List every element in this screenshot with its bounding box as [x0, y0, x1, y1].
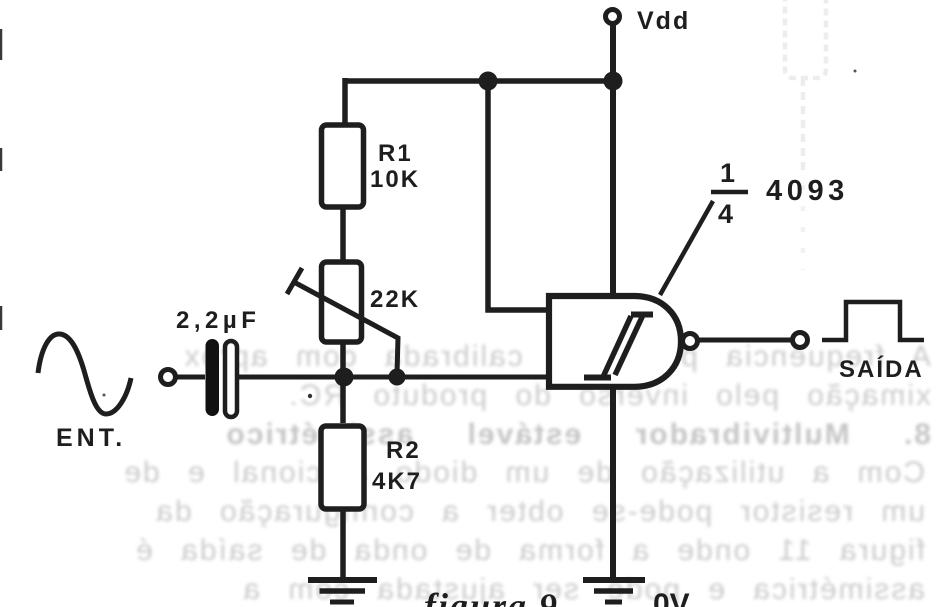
svg-text:2,2µF: 2,2µF — [176, 307, 260, 334]
svg-text:R1: R1 — [378, 140, 413, 167]
svg-text:1: 1 — [720, 158, 735, 188]
svg-text:10K: 10K — [370, 166, 420, 193]
svg-text:Vdd: Vdd — [637, 7, 690, 35]
svg-text:0V: 0V — [653, 588, 690, 607]
svg-text:R2: R2 — [386, 437, 421, 464]
svg-text:figura 9: figura 9 — [424, 586, 559, 607]
svg-text:4: 4 — [718, 199, 733, 229]
svg-text:SAÍDA: SAÍDA — [839, 355, 924, 383]
svg-text:ENT.: ENT. — [56, 424, 126, 452]
svg-text:22K: 22K — [370, 286, 420, 313]
svg-text:4093: 4093 — [766, 175, 849, 207]
svg-text:4K7: 4K7 — [372, 468, 422, 495]
